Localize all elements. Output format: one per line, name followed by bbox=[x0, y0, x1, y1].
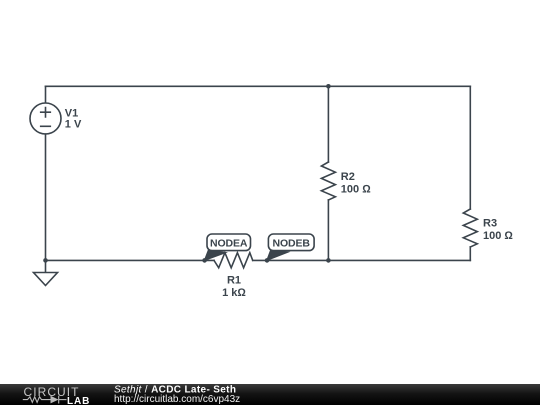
voltage source V1 bbox=[30, 103, 61, 134]
node junction dot at ground bbox=[43, 258, 48, 263]
wire R2 branch upper bbox=[327, 86, 329, 162]
resistor R3 bbox=[463, 209, 477, 247]
svg-text:100 Ω: 100 Ω bbox=[341, 183, 371, 195]
node junction dot R2 top bbox=[326, 84, 331, 89]
logo resistor-diode symbol bbox=[23, 396, 67, 404]
svg-text:NODEB: NODEB bbox=[272, 237, 310, 249]
wire bottom middle segment bbox=[253, 259, 329, 261]
node flag NODEA bbox=[204, 234, 250, 261]
node flag NODEB bbox=[267, 234, 314, 261]
svg-text:R3: R3 bbox=[483, 218, 497, 230]
wire right vertical lower (R3 bottom lead) bbox=[469, 247, 471, 260]
svg-text:1 kΩ: 1 kΩ bbox=[222, 287, 246, 299]
wire bottom left segment bbox=[46, 259, 215, 261]
wire right vertical upper (R3 top lead) bbox=[469, 86, 471, 209]
resistor R2 bbox=[321, 162, 335, 200]
svg-text:http://circuitlab.com/c6vp43z: http://circuitlab.com/c6vp43z bbox=[114, 394, 240, 405]
wire R2 branch lower bbox=[327, 200, 329, 260]
footer bar bbox=[0, 384, 540, 405]
wire left vertical lower (V1 bottom lead) bbox=[45, 134, 47, 260]
resistor R1 bbox=[214, 253, 253, 268]
wire left vertical upper (V1 top lead) bbox=[45, 86, 47, 103]
wire top horizontal bbox=[46, 85, 471, 87]
svg-text:LAB: LAB bbox=[67, 396, 90, 405]
svg-text:R1: R1 bbox=[227, 275, 241, 287]
node NODEA junction dot bbox=[202, 258, 207, 263]
svg-text:1 V: 1 V bbox=[65, 119, 82, 131]
wire bottom right segment bbox=[328, 259, 470, 261]
ground bbox=[45, 260, 47, 272]
node NODEB junction dot bbox=[265, 258, 270, 263]
svg-text:100 Ω: 100 Ω bbox=[483, 230, 513, 242]
svg-text:NODEA: NODEA bbox=[210, 237, 248, 249]
node junction dot R2 bottom bbox=[326, 258, 331, 263]
svg-text:R2: R2 bbox=[341, 171, 355, 183]
